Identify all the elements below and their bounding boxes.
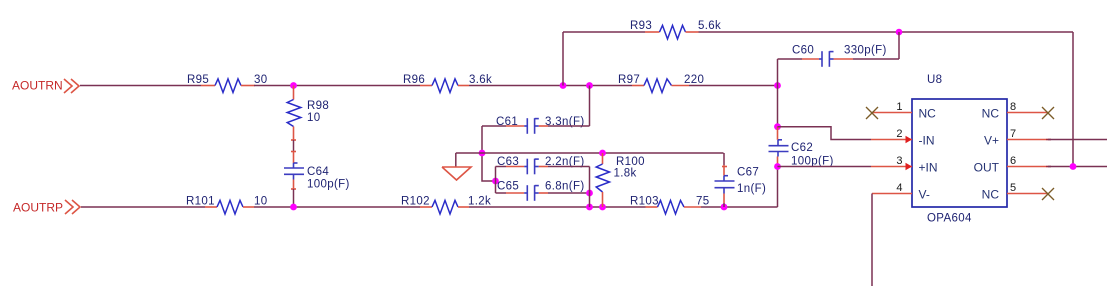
svg-text:R101: R101 xyxy=(186,196,215,208)
wire -IN riser xyxy=(777,86,779,127)
svg-text:NC: NC xyxy=(982,107,1000,121)
wire C60 riser xyxy=(777,59,779,86)
wire R93 row left xyxy=(563,31,645,33)
wire R98 to C64 xyxy=(293,140,295,152)
svg-text:C60: C60 xyxy=(792,45,814,57)
svg-text:C64: C64 xyxy=(307,166,329,178)
no-connect X pin 8 xyxy=(1042,107,1054,119)
capacitor C63 xyxy=(497,156,585,174)
svg-text:AOUTRP: AOUTRP xyxy=(13,201,63,215)
svg-text:NC: NC xyxy=(919,107,937,121)
svg-text:-IN: -IN xyxy=(919,134,935,148)
svg-text:3.6k: 3.6k xyxy=(469,74,492,86)
wire C60 row right xyxy=(853,58,899,60)
wire V- down xyxy=(871,194,873,287)
svg-text:R98: R98 xyxy=(307,100,329,112)
wire C64 to bottom xyxy=(293,189,295,207)
port AOUTRP xyxy=(13,200,80,215)
svg-text:6: 6 xyxy=(1010,155,1016,167)
svg-text:30: 30 xyxy=(254,74,268,86)
node junction C64 bottom xyxy=(290,204,297,211)
svg-text:NC: NC xyxy=(982,188,1000,202)
svg-text:3: 3 xyxy=(896,155,902,167)
node junction loop left xyxy=(492,178,499,185)
node junction R98 top xyxy=(290,82,297,89)
ground xyxy=(442,153,471,180)
svg-text:2: 2 xyxy=(896,128,902,140)
svg-text:1.8k: 1.8k xyxy=(614,168,637,180)
wire bottom main segment 3 xyxy=(469,206,646,208)
wire top main segment 4 xyxy=(689,85,778,87)
svg-text:6.8n(F): 6.8n(F) xyxy=(545,181,585,193)
svg-text:+IN: +IN xyxy=(919,161,938,175)
wire bottom main segment 4 xyxy=(701,206,778,208)
svg-text:5: 5 xyxy=(1010,182,1016,194)
svg-text:AOUTRN: AOUTRN xyxy=(12,79,63,93)
wire C61 row left vertical xyxy=(482,126,496,181)
node junction C62 bottom xyxy=(774,163,781,170)
wire C63 row left xyxy=(496,166,507,168)
wire C61 riser xyxy=(589,86,591,127)
svg-text:C65: C65 xyxy=(497,181,519,193)
svg-text:R102: R102 xyxy=(401,196,430,208)
svg-text:75: 75 xyxy=(696,196,710,208)
op-amp U8 xyxy=(912,74,1007,225)
svg-text:U8: U8 xyxy=(927,74,942,86)
node junction C67 bottom xyxy=(721,204,728,211)
node junction C65 loop bottom xyxy=(586,204,593,211)
wire C60 row left xyxy=(778,58,803,60)
wire C61 row left xyxy=(482,125,506,127)
resistor R101 xyxy=(186,196,268,215)
capacitor C61 xyxy=(496,116,585,134)
node junction C60 top xyxy=(896,29,903,36)
wire top main segment 3 xyxy=(469,85,632,87)
svg-text:OPA604: OPA604 xyxy=(927,213,972,225)
port AOUTRN xyxy=(12,79,79,94)
wire V+ out xyxy=(1048,139,1107,141)
node junction C65 right xyxy=(586,190,593,197)
pin 6 OUT xyxy=(974,155,1051,175)
svg-text:C62: C62 xyxy=(791,142,813,154)
wire loop right vertical xyxy=(589,167,591,208)
resistor R102 xyxy=(401,196,491,215)
wire C65 row left xyxy=(496,192,507,194)
no-connect X pin 1 xyxy=(866,107,878,119)
svg-text:5.6k: 5.6k xyxy=(698,20,721,32)
pin 2 -IN xyxy=(871,128,935,148)
wire C63 row right xyxy=(548,166,590,168)
svg-text:C67: C67 xyxy=(737,167,759,179)
svg-text:R97: R97 xyxy=(618,74,640,86)
capacitor C65 xyxy=(497,181,585,201)
wire feedback right vertical xyxy=(1072,32,1074,167)
resistor R100 xyxy=(596,153,645,207)
wire bottom main segment 1 xyxy=(81,206,205,208)
wire C65 row right xyxy=(548,192,590,194)
node junction R100 bottom xyxy=(599,204,606,211)
node junction OUT feedback xyxy=(1070,163,1077,170)
resistor R103 xyxy=(630,196,710,215)
resistor R98 xyxy=(287,86,329,141)
svg-text:V+: V+ xyxy=(984,134,999,148)
svg-text:1n(F): 1n(F) xyxy=(737,183,766,195)
svg-text:220: 220 xyxy=(684,74,704,86)
wire C61 row right xyxy=(548,125,590,127)
wire C67 drop xyxy=(723,153,725,165)
wire bottom main segment 2 xyxy=(254,206,420,208)
resistor R93 xyxy=(630,20,721,39)
svg-text:V-: V- xyxy=(919,188,930,202)
node junction R100 top xyxy=(599,150,606,157)
wire ground row xyxy=(456,152,724,154)
pin 5 NC xyxy=(982,182,1048,202)
svg-text:10: 10 xyxy=(254,196,268,208)
node junction C61 riser xyxy=(586,82,593,89)
capacitor C62 xyxy=(769,127,834,168)
svg-text:330p(F): 330p(F) xyxy=(844,45,887,57)
node junction C62 top xyxy=(774,123,781,130)
wire OUT row xyxy=(1048,166,1107,168)
svg-text:1: 1 xyxy=(896,101,902,113)
pin 4 V- xyxy=(872,182,930,202)
svg-text:R93: R93 xyxy=(630,20,652,32)
wire feedback riser left xyxy=(562,32,564,86)
capacitor C67 xyxy=(715,165,767,203)
wire top main segment 2 xyxy=(254,85,420,87)
svg-text:R100: R100 xyxy=(616,156,645,168)
wire -IN jog xyxy=(778,127,872,140)
capacitor C60 xyxy=(792,45,887,67)
wire C60 to top xyxy=(898,32,900,59)
wire +IN row xyxy=(778,166,872,168)
node junction ground row xyxy=(479,150,486,157)
wire bottom to +IN riser xyxy=(777,167,779,208)
svg-text:4: 4 xyxy=(896,182,902,194)
no-connect X pin 5 xyxy=(1042,188,1054,200)
wire top main segment 1 xyxy=(80,85,201,87)
svg-text:R95: R95 xyxy=(187,74,209,86)
pin 1 NC xyxy=(872,101,936,121)
svg-text:R96: R96 xyxy=(403,74,425,86)
resistor R97 xyxy=(618,74,704,93)
wire C67 to bottom xyxy=(723,203,725,207)
capacitor C64 xyxy=(284,152,350,191)
pin 3 +IN xyxy=(871,155,938,175)
resistor R96 xyxy=(403,74,492,93)
pin 7 V+ xyxy=(984,128,1051,148)
svg-text:8: 8 xyxy=(1010,101,1016,113)
svg-text:100p(F): 100p(F) xyxy=(307,179,350,191)
resistor R95 xyxy=(187,74,268,93)
svg-text:1.2k: 1.2k xyxy=(468,196,491,208)
svg-text:OUT: OUT xyxy=(974,161,1000,175)
svg-text:7: 7 xyxy=(1010,128,1016,140)
svg-text:R103: R103 xyxy=(630,196,659,208)
node junction feedback riser xyxy=(560,82,567,89)
pin 8 NC xyxy=(982,101,1048,121)
svg-text:10: 10 xyxy=(307,112,321,124)
node junction C60 riser xyxy=(774,82,781,89)
wire R93 row right xyxy=(699,31,1074,33)
svg-text:100p(F): 100p(F) xyxy=(791,156,834,168)
wire loop left vertical xyxy=(495,167,497,194)
